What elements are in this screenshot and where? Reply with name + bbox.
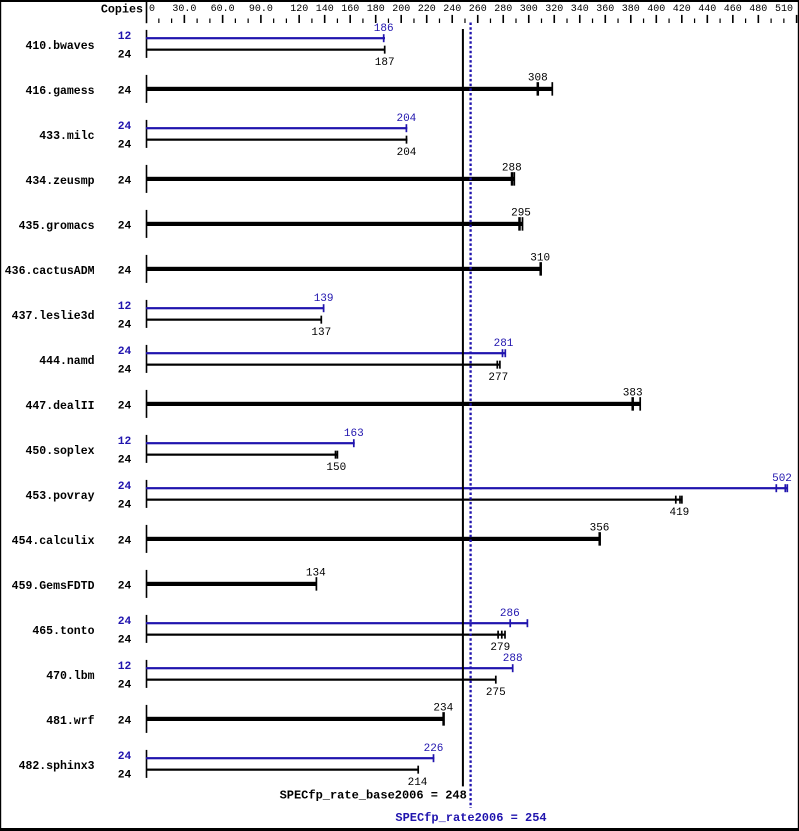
svg-text:444.namd: 444.namd xyxy=(39,355,94,368)
axis major tick 180 xyxy=(375,15,377,23)
svg-text:286: 286 xyxy=(500,608,520,620)
svg-text:400: 400 xyxy=(647,4,665,15)
bar 444.namd base (value 277) xyxy=(146,364,500,366)
svg-text:288: 288 xyxy=(502,162,522,174)
run tick at 505.3 xyxy=(504,349,506,357)
axis major tick 30 xyxy=(184,15,186,23)
run tick at 353.8 xyxy=(353,439,355,447)
svg-text:24: 24 xyxy=(118,319,132,331)
bar 482.sphinx3 base (value 214) xyxy=(146,769,419,771)
axis major tick 220 xyxy=(426,15,428,23)
bar 453.povray peak (value 502) xyxy=(146,487,788,489)
svg-text:419: 419 xyxy=(669,507,689,519)
svg-text:214: 214 xyxy=(408,777,428,789)
bar 410.bwaves base (value 187) xyxy=(146,49,386,51)
axis major tick 320 xyxy=(553,15,555,23)
svg-text:160: 160 xyxy=(341,4,359,15)
bar 433.milc base (value 204) xyxy=(146,139,407,141)
benchmark group 437.leslie3d xyxy=(12,293,334,339)
axis line segment for 453.povray xyxy=(146,480,148,508)
svg-text:24: 24 xyxy=(118,220,132,232)
svg-text:295: 295 xyxy=(511,207,531,219)
run tick at 680.0 xyxy=(679,496,681,504)
run tick at 337.4 xyxy=(337,451,339,459)
svg-text:280: 280 xyxy=(494,4,512,15)
axis minor tick 70 xyxy=(235,19,236,24)
run tick at 498.1 xyxy=(497,631,499,639)
axis line segment for 481.wrf xyxy=(146,705,148,733)
svg-text:24: 24 xyxy=(118,715,132,727)
svg-text:470.lbm: 470.lbm xyxy=(46,670,94,683)
axis minor tick 490 xyxy=(771,19,772,24)
svg-text:0: 0 xyxy=(149,4,155,15)
run tick at 681.9 xyxy=(681,496,683,504)
axis line segment for 465.tonto xyxy=(146,615,148,643)
axis major tick 400 xyxy=(656,15,658,23)
svg-text:12: 12 xyxy=(118,31,132,43)
svg-text:24: 24 xyxy=(118,175,132,187)
bar 470.lbm base (value 275) xyxy=(146,679,497,681)
bar 465.tonto base (value 279) xyxy=(146,634,506,636)
bar 470.lbm peak (value 288) xyxy=(146,667,514,669)
benchmark group 434.zeusmp xyxy=(25,162,521,193)
axis major tick 380 xyxy=(630,15,632,23)
svg-text:163: 163 xyxy=(344,428,364,440)
svg-text:204: 204 xyxy=(397,147,417,159)
axis major tick 260 xyxy=(477,15,479,23)
bar 481.wrf base (value 234) xyxy=(146,717,445,721)
axis minor tick 10 xyxy=(158,19,159,24)
axis minor tick 80 xyxy=(248,19,249,24)
axis major tick 360 xyxy=(604,15,606,23)
SPECfp_rate_base2006 reference line (248) xyxy=(462,29,464,786)
axis line segment for 434.zeusmp xyxy=(146,165,148,193)
svg-text:120: 120 xyxy=(290,4,308,15)
benchmark group 481.wrf xyxy=(46,702,453,733)
axis major tick 300 xyxy=(528,15,530,23)
run tick at 497.3 xyxy=(496,361,498,369)
svg-text:24: 24 xyxy=(118,140,132,152)
run tick at 495.8 xyxy=(495,676,497,684)
svg-text:482.sphinx3: 482.sphinx3 xyxy=(19,760,95,773)
axis minor tick 450 xyxy=(719,19,720,24)
axis minor tick 150 xyxy=(337,19,338,24)
svg-text:24: 24 xyxy=(118,400,132,412)
run tick at 406.5 xyxy=(406,136,408,144)
axis vertical line top xyxy=(146,2,148,23)
border frame left xyxy=(0,0,1,831)
run tick at 510.2 xyxy=(509,619,511,627)
bar 410.bwaves peak (value 186) xyxy=(146,37,385,39)
axis minor tick 290 xyxy=(515,19,516,24)
svg-text:465.tonto: 465.tonto xyxy=(32,625,94,638)
SPECfp_rate2006 peak reference line (254, dotted) xyxy=(469,23,471,809)
axis line segment for 454.calculix xyxy=(146,525,148,553)
axis minor tick 170 xyxy=(362,19,363,24)
run tick at 383.7 xyxy=(383,34,385,42)
axis minor tick 350 xyxy=(592,19,593,24)
benchmark group 444.namd xyxy=(39,338,514,384)
benchmark group 470.lbm xyxy=(46,653,522,699)
run tick at 599.7 xyxy=(598,532,601,546)
axis minor tick 230 xyxy=(439,19,440,24)
svg-text:300: 300 xyxy=(520,4,538,15)
axis minor tick 40 xyxy=(197,19,198,24)
svg-text:453.povray: 453.povray xyxy=(25,490,94,503)
svg-text:288: 288 xyxy=(503,653,523,665)
svg-text:437.leslie3d: 437.leslie3d xyxy=(12,310,95,323)
svg-text:436.cactusADM: 436.cactusADM xyxy=(5,265,95,278)
axis minor tick 430 xyxy=(694,19,695,24)
svg-text:134: 134 xyxy=(306,567,326,579)
run tick at 776.3 xyxy=(775,484,777,492)
axis major tick 160 xyxy=(349,15,351,23)
axis major tick 90 xyxy=(260,15,262,23)
axis major tick 480 xyxy=(758,15,760,23)
svg-text:204: 204 xyxy=(396,113,416,125)
run tick at 406.4 xyxy=(406,124,408,132)
run tick at 540.7 xyxy=(539,262,542,276)
svg-text:410.bwaves: 410.bwaves xyxy=(25,40,94,53)
svg-text:281: 281 xyxy=(494,338,514,350)
run tick at 552.3 xyxy=(551,82,553,96)
bar 437.leslie3d base (value 137) xyxy=(146,319,322,321)
svg-text:277: 277 xyxy=(488,372,508,384)
svg-text:24: 24 xyxy=(118,85,132,97)
bar 454.calculix base (value 356) xyxy=(146,537,601,541)
benchmark group 435.gromacs xyxy=(19,207,531,238)
svg-text:12: 12 xyxy=(118,661,132,673)
run tick at 418.2 xyxy=(417,766,419,774)
svg-text:275: 275 xyxy=(486,687,506,699)
axis minor tick 330 xyxy=(566,19,567,24)
svg-text:447.dealII: 447.dealII xyxy=(25,400,94,413)
run tick at 787.3 xyxy=(786,484,788,492)
svg-text:12: 12 xyxy=(118,436,132,448)
axis line segment for 416.gamess xyxy=(146,75,148,103)
axis minor tick 210 xyxy=(413,19,414,24)
run tick at 527.4 xyxy=(527,619,529,627)
bar 450.soplex peak (value 163) xyxy=(146,442,355,444)
bar 482.sphinx3 peak (value 226) xyxy=(146,757,434,759)
svg-text:24: 24 xyxy=(118,634,132,646)
axis minor tick 100 xyxy=(273,19,274,24)
benchmark group 465.tonto xyxy=(32,608,528,654)
axis minor tick 50 xyxy=(209,19,210,24)
axis line segment for 470.lbm xyxy=(146,660,148,688)
svg-text:308: 308 xyxy=(528,72,548,84)
axis major tick 120 xyxy=(298,15,300,23)
benchmark group 410.bwaves xyxy=(25,23,394,69)
axis line segment for 436.cactusADM xyxy=(146,255,148,283)
svg-text:450.soplex: 450.soplex xyxy=(25,445,94,458)
axis major tick 60 xyxy=(222,15,224,23)
run tick at 640.2 xyxy=(639,397,641,411)
benchmark group 459.GemsFDTD xyxy=(12,567,326,598)
svg-text:180: 180 xyxy=(367,4,385,15)
bar 437.leslie3d peak (value 139) xyxy=(146,307,324,309)
svg-text:24: 24 xyxy=(118,346,132,358)
axis line segment for 435.gromacs xyxy=(146,210,148,238)
svg-text:220: 220 xyxy=(418,4,436,15)
benchmark group 416.gamess xyxy=(25,72,553,103)
benchmark group 450.soplex xyxy=(25,428,363,474)
svg-text:320: 320 xyxy=(545,4,563,15)
svg-text:460: 460 xyxy=(724,4,742,15)
run tick at 321.3 xyxy=(320,316,322,324)
axis line segment for 444.namd xyxy=(146,345,148,373)
bar 416.gamess base (value 308) xyxy=(146,87,553,91)
svg-text:356: 356 xyxy=(590,522,610,534)
benchmark group 447.dealII xyxy=(25,387,642,418)
run tick at 519.5 xyxy=(518,217,521,231)
run tick at 499.9 xyxy=(499,361,501,369)
benchmark group 482.sphinx3 xyxy=(19,743,444,789)
svg-text:24: 24 xyxy=(118,481,132,493)
axis minor tick 500 xyxy=(783,19,784,24)
axis minor tick 270 xyxy=(490,19,491,24)
axis line segment for 447.dealII xyxy=(146,390,148,418)
benchmark group 436.cactusADM xyxy=(5,252,550,283)
svg-text:Copies: Copies xyxy=(101,3,143,17)
run tick at 512.7 xyxy=(512,664,514,672)
svg-text:260: 260 xyxy=(469,4,487,15)
axis line segment for 459.GemsFDTD xyxy=(146,570,148,598)
bar 459.GemsFDTD base (value 134) xyxy=(146,582,317,586)
svg-text:234: 234 xyxy=(433,702,453,714)
run tick at 323.6 xyxy=(323,304,325,312)
axis minor tick 470 xyxy=(745,19,746,24)
svg-text:186: 186 xyxy=(374,23,394,35)
svg-text:454.calculix: 454.calculix xyxy=(12,535,95,548)
svg-text:60.0: 60.0 xyxy=(211,4,235,15)
bar 465.tonto peak (value 286) xyxy=(146,622,528,624)
svg-text:24: 24 xyxy=(118,364,132,376)
svg-text:24: 24 xyxy=(118,679,132,691)
axis major tick 140 xyxy=(324,15,326,23)
axis minor tick 410 xyxy=(668,19,669,24)
benchmark group 454.calculix xyxy=(12,522,610,553)
axis minor tick 370 xyxy=(617,19,618,24)
axis line segment for 482.sphinx3 xyxy=(146,750,148,778)
border frame top xyxy=(0,0,799,2)
axis minor tick 310 xyxy=(541,19,542,24)
svg-text:502: 502 xyxy=(772,473,792,485)
axis minor tick 110 xyxy=(286,19,287,24)
bar 433.milc peak (value 204) xyxy=(146,127,407,129)
benchmark group 453.povray xyxy=(25,473,791,519)
svg-text:240: 240 xyxy=(443,4,461,15)
svg-text:12: 12 xyxy=(118,301,132,313)
svg-text:200: 200 xyxy=(392,4,410,15)
svg-text:380: 380 xyxy=(622,4,640,15)
svg-text:24: 24 xyxy=(118,580,132,592)
border frame right xyxy=(798,0,799,831)
bar 435.gromacs base (value 295) xyxy=(146,222,523,226)
svg-text:SPECfp_rate2006 = 254: SPECfp_rate2006 = 254 xyxy=(395,811,546,825)
run tick at 537.8 xyxy=(537,82,540,96)
axis major tick 240 xyxy=(451,15,453,23)
svg-text:24: 24 xyxy=(118,769,132,781)
run tick at 522.5 xyxy=(522,217,524,231)
run tick at 335.5 xyxy=(335,451,337,459)
svg-text:24: 24 xyxy=(118,499,132,511)
svg-text:24: 24 xyxy=(118,121,132,133)
axis major tick 280 xyxy=(502,15,504,23)
svg-text:90.0: 90.0 xyxy=(249,4,273,15)
run tick at 316.4 xyxy=(316,577,318,591)
svg-text:434.zeusmp: 434.zeusmp xyxy=(25,175,94,188)
svg-text:139: 139 xyxy=(314,293,334,305)
run tick at 433.5 xyxy=(433,754,435,762)
svg-text:416.gamess: 416.gamess xyxy=(25,85,94,98)
run tick at 502.5 xyxy=(502,349,504,357)
bar 450.soplex base (value 150) xyxy=(146,454,338,456)
svg-text:340: 340 xyxy=(571,4,589,15)
bar 436.cactusADM base (value 310) xyxy=(146,267,542,271)
axis minor tick 250 xyxy=(464,19,465,24)
svg-text:459.GemsFDTD: 459.GemsFDTD xyxy=(12,580,95,593)
svg-text:420: 420 xyxy=(673,4,691,15)
bar 447.dealII base (value 383) xyxy=(146,402,641,406)
svg-text:24: 24 xyxy=(118,616,132,628)
axis minor tick 20 xyxy=(171,19,172,24)
svg-text:187: 187 xyxy=(375,57,395,69)
bar 444.namd peak (value 281) xyxy=(146,352,506,354)
axis line segment for 410.bwaves xyxy=(146,30,148,58)
svg-text:SPECfp_rate_base2006 = 248: SPECfp_rate_base2006 = 248 xyxy=(280,788,467,802)
bar 453.povray base (value 419) xyxy=(146,499,683,501)
axis major tick 460 xyxy=(732,15,734,23)
svg-text:481.wrf: 481.wrf xyxy=(46,715,94,728)
bar 434.zeusmp base (value 288) xyxy=(146,177,515,181)
axis line segment for 450.soplex xyxy=(146,435,148,463)
run tick at 384.7 xyxy=(384,46,386,54)
run tick at 443.6 xyxy=(442,712,445,726)
run tick at 512.0 xyxy=(511,172,514,186)
svg-text:30.0: 30.0 xyxy=(172,4,196,15)
svg-text:140: 140 xyxy=(316,4,334,15)
svg-text:24: 24 xyxy=(118,535,132,547)
run tick at 675.8 xyxy=(675,496,677,504)
svg-text:24: 24 xyxy=(118,454,132,466)
svg-text:510: 510 xyxy=(775,4,793,15)
axis minor tick 390 xyxy=(643,19,644,24)
svg-text:435.gromacs: 435.gromacs xyxy=(19,220,95,233)
axis minor tick 190 xyxy=(388,19,389,24)
axis major tick 200 xyxy=(400,15,402,23)
axis major tick 420 xyxy=(681,15,683,23)
run tick at 785.3 xyxy=(784,484,786,492)
border frame bottom xyxy=(0,828,799,831)
svg-text:310: 310 xyxy=(530,252,550,264)
benchmark group 433.milc xyxy=(39,113,417,159)
run tick at 514.3 xyxy=(513,172,515,186)
run tick at 505.0 xyxy=(504,631,506,639)
axis major tick 340 xyxy=(579,15,581,23)
run tick at 632.7 xyxy=(631,397,634,411)
run tick at 501.8 xyxy=(501,631,503,639)
svg-text:24: 24 xyxy=(118,49,132,61)
axis major tick 440 xyxy=(707,15,709,23)
svg-text:360: 360 xyxy=(596,4,614,15)
axis line segment for 433.milc xyxy=(146,120,148,148)
svg-text:480: 480 xyxy=(749,4,767,15)
axis minor tick 130 xyxy=(311,19,312,24)
axis major tick 510 xyxy=(796,15,798,23)
svg-text:150: 150 xyxy=(326,462,346,474)
svg-text:433.milc: 433.milc xyxy=(39,130,94,143)
svg-text:383: 383 xyxy=(623,387,643,399)
svg-text:440: 440 xyxy=(698,4,716,15)
svg-text:24: 24 xyxy=(118,265,132,277)
svg-text:137: 137 xyxy=(311,327,331,339)
svg-text:226: 226 xyxy=(424,743,444,755)
axis line segment for 437.leslie3d xyxy=(146,300,148,328)
svg-text:24: 24 xyxy=(118,751,132,763)
